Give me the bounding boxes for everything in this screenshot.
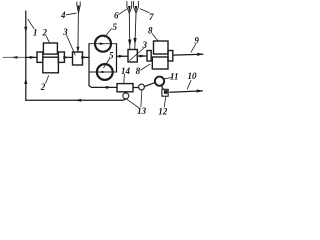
rotameter 5 upper circle [95,36,111,52]
leader label 1 [28,19,34,29]
wire: mixer 3b to component 8 [137,55,147,57]
svg-text:11: 11 [170,72,179,82]
arrow down on line 1 [24,27,27,33]
wire: output 10 [170,91,203,92]
arrow down line 7 [133,38,136,45]
svg-text:7: 7 [149,12,154,22]
leader label 9 [191,44,196,52]
wire: manifold down to sampler 14 [89,86,117,88]
leader label 3 left [67,35,76,55]
leader label 8 upper [152,34,158,42]
component 8 upper box [154,41,169,54]
svg-text:12: 12 [158,106,168,116]
wire: upper branch of unit 5 [89,43,117,45]
svg-text:5: 5 [109,51,114,61]
svg-text:1: 1 [33,27,38,37]
gauge 11 circle [155,77,164,86]
valve 12 square [162,89,168,96]
svg-text:3: 3 [142,40,148,50]
wire: supply riser line 1 [25,11,27,57]
wire: output 9 [173,53,203,56]
leader label 13 to junction 13b [141,90,142,106]
wire: funnel 6 to mixer 3b [128,13,131,49]
wire: return riser [25,57,27,100]
arrow right into component 2 [30,56,36,59]
leader label 11 [164,78,171,79]
funnel 7 inner wedge [135,6,138,12]
wire: lower branch of unit 5 [89,71,117,73]
svg-text:2: 2 [40,82,46,92]
arrow right into component 8 [140,55,146,58]
arrow right into sampler 14 [106,86,112,89]
arrow right output 9 [197,53,203,56]
svg-text:13: 13 [137,106,147,116]
svg-text:8: 8 [148,26,153,36]
funnel 6 [127,2,132,14]
arrow left on bottom return [75,99,81,102]
funnel 7 [134,2,139,14]
leader label 7 [140,9,149,13]
leader label 13 to tap 13a [127,99,139,107]
svg-text:6: 6 [114,11,119,21]
component 2 left tab [37,52,43,62]
wire: funnel 4 down to component 3 [77,13,80,53]
svg-text:9: 9 [194,35,199,45]
svg-text:3: 3 [62,27,68,37]
wire: sampler 14 to junction 13b [133,87,139,89]
wire: right manifold of unit 5 [116,44,118,72]
svg-text:4: 4 [60,10,66,20]
leader label 2 bottom [46,76,49,84]
junction 13b small circle [139,84,145,90]
component 8 right tab [168,51,173,62]
sampler box 14 [117,84,133,92]
wire: component 2 to component 3 [64,56,72,58]
svg-text:8: 8 [136,66,141,76]
rotameter 5 lower circle [97,64,113,80]
arrow in upper rotameter [100,42,105,45]
component 8 lower box [152,57,168,69]
leader label 14 [123,74,126,83]
component 2 upper box [43,43,57,54]
arrow right output 10 [197,89,203,92]
wire: bottom return line [26,99,126,100]
leader label 10 [187,80,191,89]
leader label 3 right [130,48,145,61]
wire: component 3 to rotameter manifold [83,56,90,58]
arrow down line 6 [128,40,131,47]
wire: manifold to mixer 3b [117,55,129,57]
leader label 12 [164,97,166,107]
component 8 left tab [147,51,151,62]
arrow up on return riser [24,78,27,84]
funnel 4 inner wedge [78,6,80,12]
svg-text:14: 14 [121,66,131,76]
arrow in lower rotameter [102,71,107,74]
arrow right into component 3 [63,56,69,59]
wire: junction to gauge 11 [144,83,155,87]
wire: into component 2 [26,56,37,58]
arrow right after component 3 [81,56,87,59]
leader label 6 [119,9,127,14]
funnel 4 [77,2,80,13]
component 2 lower box [43,57,59,73]
arrow down into component 3 [76,47,79,53]
leader label 5 lower [104,59,110,68]
wire: funnel 7 to mixer 3b [135,13,136,49]
stub to tap 13a [125,92,127,93]
wire: left manifold of unit 5 [88,44,90,86]
leader label 5 upper [105,29,112,37]
funnel 6 inner wedge [128,6,131,12]
leader label 2 top [46,36,49,43]
svg-text:10: 10 [188,71,198,81]
link gauge 11 to valve 12 [161,86,163,89]
mixer box 3b [128,50,137,63]
leader label 8 lower [141,64,150,70]
component 3 box (left mixer) [73,52,83,65]
arrow left on exhaust [12,56,18,59]
svg-text:2: 2 [42,28,48,38]
tap 13a small circle [123,93,129,99]
valve 12 inner mark [164,90,168,94]
wire: exhaust out left [3,56,26,58]
svg-text:5: 5 [113,22,118,32]
leader label 4 [66,13,76,15]
arrow right into mixer 3b [119,55,125,58]
component 2 right tab [58,52,64,62]
